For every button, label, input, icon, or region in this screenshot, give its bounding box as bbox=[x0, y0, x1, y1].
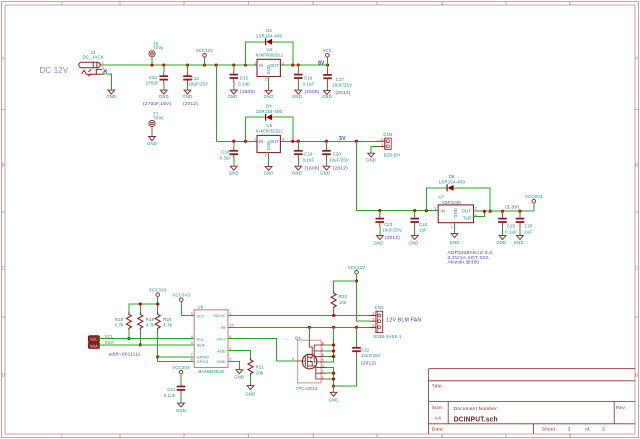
svg-text:4.7k: 4.7k bbox=[146, 322, 155, 327]
IC U6 MAX6650 bbox=[191, 305, 234, 374]
svg-text:GND: GND bbox=[450, 240, 460, 245]
ground (C17) bbox=[324, 91, 331, 95]
svg-text:C16: C16 bbox=[304, 75, 313, 80]
svg-text:NJM7808SDL1: NJM7808SDL1 bbox=[256, 52, 284, 57]
svg-text:GND: GND bbox=[229, 171, 239, 176]
diode D3 bbox=[244, 28, 295, 67]
ground (C23) bbox=[376, 236, 383, 240]
svg-text:10uF/25V: 10uF/25V bbox=[329, 158, 349, 163]
node T6 junction bbox=[150, 63, 153, 66]
svg-text:GND: GND bbox=[227, 94, 237, 99]
wire U7 output rail 3.3V bbox=[474, 210, 534, 212]
svg-text:TPCA8013: TPCA8013 bbox=[296, 386, 319, 391]
wire R21 bottom bbox=[250, 375, 252, 385]
ground (C20) bbox=[323, 166, 330, 170]
resistor R21 bbox=[248, 358, 253, 375]
svg-text:NJM7805SDL1: NJM7805SDL1 bbox=[256, 128, 284, 133]
wire 5V rail bbox=[216, 140, 377, 142]
svg-text:OUT: OUT bbox=[217, 337, 226, 341]
wire TACH0 line bbox=[228, 315, 376, 317]
svg-text:Document Number:: Document Number: bbox=[454, 406, 499, 412]
svg-text:2: 2 bbox=[265, 154, 267, 158]
svg-text:1: 1 bbox=[372, 324, 374, 328]
ground (C25) bbox=[499, 236, 506, 240]
svg-text:GND: GND bbox=[159, 94, 169, 99]
node branch to U7 bbox=[355, 140, 358, 143]
svg-text:(2012): (2012) bbox=[361, 361, 376, 367]
resistor R22 bbox=[331, 292, 336, 309]
svg-text:(3.3V): (3.3V) bbox=[505, 204, 519, 210]
node R18/SCL bbox=[127, 337, 130, 340]
svg-text:GND: GND bbox=[147, 141, 157, 146]
power flag VCC3V3 (pull-ups) bbox=[156, 293, 160, 297]
svg-text:VCC3V3: VCC3V3 bbox=[149, 288, 167, 293]
capacitor C26 bbox=[516, 210, 533, 236]
svg-text:3: 3 bbox=[372, 312, 374, 316]
node drain pin7 bbox=[332, 349, 335, 352]
node VCC / C17 bbox=[326, 63, 329, 66]
wire 12V down to CN5 pin2 bbox=[357, 274, 370, 321]
regulator U7 ADP3338 bbox=[434, 195, 477, 230]
svg-text:4: 4 bbox=[292, 357, 294, 361]
ground (C24) bbox=[411, 236, 418, 240]
diode D4 bbox=[244, 103, 295, 142]
capacitor C19 bbox=[294, 140, 315, 167]
svg-text:ADD: ADD bbox=[217, 349, 226, 353]
svg-text:CN5: CN5 bbox=[375, 305, 384, 310]
svg-text:0.1uF: 0.1uF bbox=[238, 81, 250, 86]
svg-text:VCC: VCC bbox=[197, 314, 206, 318]
svg-text:OUT: OUT bbox=[270, 63, 280, 68]
wire R19 bottom bbox=[139, 330, 141, 345]
node TAB junction bbox=[483, 210, 486, 213]
connector J1 DC_JACK bbox=[79, 50, 107, 76]
wire R20 bottom to GPIO lines bbox=[158, 330, 195, 361]
svg-text:0.1uF: 0.1uF bbox=[164, 393, 176, 398]
wire main 12V rail bbox=[102, 64, 328, 66]
wire Q4 source bus bbox=[326, 368, 333, 387]
ground (CN4) bbox=[368, 153, 375, 157]
node branch to U5 bbox=[215, 63, 218, 66]
svg-text:TAB: TAB bbox=[463, 215, 471, 220]
svg-text:2: 2 bbox=[183, 433, 186, 438]
ground (Q4 source) bbox=[330, 392, 337, 396]
ground (C16) bbox=[295, 90, 302, 94]
svg-text:(1608): (1608) bbox=[305, 165, 320, 171]
svg-text:SDA: SDA bbox=[105, 340, 115, 345]
node FB/drain bus bbox=[332, 326, 335, 329]
wire ground stub bbox=[333, 386, 335, 392]
svg-text:TACH0: TACH0 bbox=[213, 314, 226, 318]
ground (R21) bbox=[247, 386, 254, 390]
svg-text:(270uF,16V): (270uF,16V) bbox=[143, 101, 172, 107]
svg-text:GPIO0: GPIO0 bbox=[197, 356, 209, 360]
svg-text:ADP3338: ADP3338 bbox=[442, 200, 462, 205]
svg-text:C17: C17 bbox=[336, 77, 345, 82]
power flag VCC12V bbox=[196, 48, 214, 66]
svg-text:C13: C13 bbox=[149, 75, 158, 80]
svg-text:3: 3 bbox=[312, 1, 315, 6]
svg-text:10uF/25V: 10uF/25V bbox=[332, 83, 352, 88]
power flag VCC12V (fan) bbox=[355, 270, 359, 274]
svg-text:1: 1 bbox=[61, 433, 64, 438]
node R22/TACH0 bbox=[332, 314, 335, 317]
svg-text:Q4: Q4 bbox=[295, 336, 301, 341]
ground (C19) bbox=[295, 166, 302, 170]
wire U4 pin2 to ground bbox=[268, 77, 270, 91]
svg-text:OUT: OUT bbox=[462, 208, 472, 213]
svg-text:R22: R22 bbox=[339, 294, 348, 299]
svg-text:1uF: 1uF bbox=[524, 229, 532, 234]
svg-text:CN4: CN4 bbox=[383, 132, 392, 137]
ground (U5) bbox=[265, 166, 272, 170]
svg-text:S03B-XASK-1: S03B-XASK-1 bbox=[374, 334, 402, 339]
ground (C14) bbox=[184, 90, 191, 94]
ground (C21) bbox=[178, 403, 185, 407]
svg-text:TPIN: TPIN bbox=[153, 116, 163, 121]
node R20/GPIO0 bbox=[156, 355, 159, 358]
wire FB to Q4 drain top bbox=[308, 327, 310, 340]
wire pull-up top rail bbox=[129, 296, 158, 312]
svg-text:GND: GND bbox=[374, 241, 384, 246]
svg-text:4: 4 bbox=[441, 1, 444, 6]
svg-text:SDA: SDA bbox=[90, 344, 98, 348]
node drain pin6 bbox=[332, 355, 335, 358]
wire OUT to Q4 gate bbox=[228, 339, 298, 361]
svg-text:VCC3V3: VCC3V3 bbox=[172, 365, 190, 370]
wire U6 GND pin to ground bbox=[228, 361, 239, 369]
wire 5V branch down and U7 input rail bbox=[356, 141, 437, 210]
svg-text:2: 2 bbox=[372, 318, 374, 322]
svg-text:GND: GND bbox=[453, 208, 458, 218]
svg-text:U6: U6 bbox=[198, 305, 204, 310]
svg-text:1SR154-400: 1SR154-400 bbox=[256, 109, 283, 114]
capacitor C24 bbox=[410, 209, 427, 236]
wire FB line bbox=[228, 326, 376, 328]
svg-text:C23: C23 bbox=[384, 222, 393, 227]
svg-text:5V: 5V bbox=[339, 136, 346, 142]
svg-text:GND: GND bbox=[366, 158, 376, 163]
svg-text:0.3uF: 0.3uF bbox=[220, 156, 232, 161]
ground (U7) bbox=[451, 234, 458, 238]
svg-text:10k: 10k bbox=[256, 370, 264, 375]
svg-text:GND: GND bbox=[106, 94, 116, 99]
svg-text:8V: 8V bbox=[318, 60, 325, 66]
node R22 branch bbox=[355, 279, 358, 282]
svg-text:8: 8 bbox=[191, 358, 193, 362]
svg-text:A4: A4 bbox=[435, 416, 441, 422]
svg-text:GND: GND bbox=[292, 94, 302, 99]
svg-text:4: 4 bbox=[191, 335, 193, 339]
svg-text:FB: FB bbox=[221, 326, 226, 330]
svg-text:Size:: Size: bbox=[432, 405, 444, 411]
wire SDA bbox=[100, 344, 195, 346]
svg-text:(1608): (1608) bbox=[240, 89, 255, 95]
svg-text:C: C bbox=[2, 266, 6, 271]
svg-text:10k: 10k bbox=[339, 300, 347, 305]
node R19/SDA bbox=[139, 343, 142, 346]
svg-text:10uF/25V: 10uF/25V bbox=[361, 353, 381, 358]
svg-text:7: 7 bbox=[322, 347, 324, 351]
power flag VCC3V3 (U6 VCC) bbox=[180, 298, 184, 302]
svg-text:SDA: SDA bbox=[197, 344, 206, 348]
svg-text:GND: GND bbox=[183, 94, 193, 99]
svg-text:GND: GND bbox=[292, 171, 302, 176]
svg-text:1SR154-400: 1SR154-400 bbox=[439, 180, 466, 185]
svg-text:IN: IN bbox=[259, 139, 264, 144]
svg-text:Date:: Date: bbox=[432, 427, 444, 433]
svg-text:(2012): (2012) bbox=[385, 235, 400, 241]
svg-text:5: 5 bbox=[569, 1, 572, 6]
svg-text:C: C bbox=[635, 266, 639, 271]
svg-text:5: 5 bbox=[322, 358, 324, 362]
svg-text:2: 2 bbox=[183, 1, 186, 6]
global label SCL bbox=[88, 336, 99, 342]
capacitor C15 bbox=[229, 63, 250, 90]
svg-text:B: B bbox=[2, 163, 5, 168]
capacitor C20 bbox=[322, 140, 349, 167]
regulator U4 bbox=[254, 47, 284, 81]
svg-text:4: 4 bbox=[475, 214, 477, 218]
svg-text:GND: GND bbox=[264, 94, 274, 99]
power flag VCC3V3 (3.3V rail) bbox=[533, 203, 535, 211]
title block bbox=[429, 369, 635, 434]
svg-text:1: 1 bbox=[451, 225, 453, 229]
svg-text:GND: GND bbox=[217, 360, 226, 364]
svg-text:8: 8 bbox=[322, 341, 324, 345]
svg-text:OUT: OUT bbox=[270, 139, 280, 144]
wire R22 bottom bbox=[333, 309, 335, 316]
svg-text:GND: GND bbox=[409, 241, 419, 246]
node source/ground rail bbox=[332, 385, 335, 388]
svg-text:GND: GND bbox=[266, 65, 271, 75]
node C22 branch bbox=[355, 326, 358, 329]
regulator U5 bbox=[254, 123, 284, 157]
node FB/drain bbox=[308, 326, 311, 329]
svg-text:(2012): (2012) bbox=[333, 165, 348, 171]
svg-text:4.7k: 4.7k bbox=[115, 322, 124, 327]
svg-text:3: 3 bbox=[191, 341, 193, 345]
svg-text:1: 1 bbox=[254, 61, 256, 65]
test point T6 bbox=[149, 51, 155, 57]
ground (T7) bbox=[149, 137, 156, 141]
connector CN4 bbox=[377, 132, 400, 157]
wire Q4 drain bus bbox=[326, 327, 333, 362]
diode D6 bbox=[425, 174, 492, 213]
svg-text:(2012): (2012) bbox=[183, 101, 198, 107]
svg-text:1: 1 bbox=[61, 1, 64, 6]
svg-text:D: D bbox=[2, 373, 6, 378]
ground (U4) bbox=[265, 90, 272, 94]
wire branch down to 5V regulator rail bbox=[215, 65, 217, 141]
ground (C26) bbox=[517, 236, 524, 240]
capacitor C22 bbox=[334, 327, 381, 386]
svg-text:2: 2 bbox=[381, 138, 383, 142]
svg-text:B2B-EH: B2B-EH bbox=[384, 152, 400, 157]
svg-text:D6: D6 bbox=[449, 174, 455, 179]
svg-text:10uF/25V: 10uF/25V bbox=[382, 228, 402, 233]
svg-text:Title:: Title: bbox=[432, 384, 443, 390]
svg-text:Sheet:: Sheet: bbox=[542, 426, 557, 432]
svg-text:4: 4 bbox=[441, 433, 444, 438]
node R20 top bbox=[156, 302, 159, 305]
power flag VCC bbox=[326, 57, 328, 65]
node drain pin8 bbox=[332, 343, 335, 346]
svg-text:9: 9 bbox=[191, 312, 193, 316]
svg-text:3: 3 bbox=[282, 61, 284, 65]
svg-text:12V BLM FAN: 12V BLM FAN bbox=[386, 318, 421, 324]
svg-text:SCL: SCL bbox=[197, 337, 205, 341]
wire U7 pin1 to ground bbox=[454, 223, 456, 234]
svg-text:C21: C21 bbox=[167, 387, 176, 392]
svg-text:C25: C25 bbox=[507, 224, 516, 229]
svg-text:0.1uF: 0.1uF bbox=[505, 229, 517, 234]
svg-text:VCC3V3: VCC3V3 bbox=[525, 194, 543, 199]
resistor R18 bbox=[126, 313, 131, 330]
svg-text:(1608): (1608) bbox=[305, 89, 320, 95]
svg-text:VCC12V: VCC12V bbox=[348, 265, 366, 270]
resistor R20 bbox=[155, 313, 160, 330]
resistor R19 bbox=[138, 313, 143, 330]
svg-text:VCC12V: VCC12V bbox=[196, 48, 214, 53]
svg-text:5: 5 bbox=[569, 433, 572, 438]
transistor Q4 TPCA8013 bbox=[292, 336, 327, 391]
svg-text:2: 2 bbox=[322, 370, 324, 374]
svg-text:C18: C18 bbox=[221, 150, 230, 155]
ground (C15) bbox=[230, 90, 237, 94]
svg-text:1: 1 bbox=[322, 375, 324, 379]
svg-text:2: 2 bbox=[475, 207, 477, 211]
ground (U6) bbox=[236, 370, 243, 374]
svg-text:MAX6650EUB: MAX6650EUB bbox=[198, 369, 224, 374]
ground (C18) bbox=[230, 166, 237, 170]
capacitor C13 bbox=[146, 63, 168, 90]
svg-text:4.7k: 4.7k bbox=[163, 322, 172, 327]
svg-text:10uF/25V: 10uF/25V bbox=[188, 82, 208, 87]
svg-text:GND: GND bbox=[514, 240, 524, 245]
svg-text:270uF: 270uF bbox=[146, 80, 159, 85]
svg-text:1uF: 1uF bbox=[419, 228, 427, 233]
svg-text:0.1uF: 0.1uF bbox=[303, 81, 315, 86]
node source pin2 bbox=[332, 372, 335, 375]
svg-text:GND: GND bbox=[329, 398, 339, 403]
svg-text:R21: R21 bbox=[256, 364, 265, 369]
wire T7 stub bbox=[151, 127, 153, 137]
ground (C13) bbox=[160, 90, 167, 94]
wire 12V to R22 bbox=[334, 281, 357, 292]
svg-text:C24: C24 bbox=[419, 222, 428, 227]
node R19 top bbox=[139, 302, 142, 305]
wire T6 stub bbox=[151, 57, 153, 65]
svg-text:1: 1 bbox=[254, 137, 256, 141]
capacitor C18 bbox=[220, 140, 238, 167]
svg-text:GND: GND bbox=[266, 141, 271, 151]
svg-text:GND: GND bbox=[320, 171, 330, 176]
capacitor C25 bbox=[498, 210, 517, 236]
svg-text:Akizuki.@300: Akizuki.@300 bbox=[448, 259, 480, 265]
svg-text:0.1uF: 0.1uF bbox=[303, 158, 315, 163]
capacitor C21 bbox=[164, 374, 186, 403]
svg-text:6: 6 bbox=[322, 353, 324, 357]
svg-text:3: 3 bbox=[322, 364, 324, 368]
svg-text:C19: C19 bbox=[304, 152, 313, 157]
test point T7 bbox=[149, 120, 155, 126]
svg-text:1SR154-400: 1SR154-400 bbox=[256, 33, 283, 38]
svg-text:C15: C15 bbox=[240, 75, 249, 80]
svg-text:VCC3V3: VCC3V3 bbox=[173, 293, 191, 298]
svg-text:D: D bbox=[635, 373, 639, 378]
svg-text:GPIO1: GPIO1 bbox=[197, 360, 209, 364]
svg-text:GND: GND bbox=[496, 240, 506, 245]
capacitor C14 bbox=[183, 63, 208, 90]
svg-text:TPIN: TPIN bbox=[153, 46, 163, 51]
svg-text:GND: GND bbox=[234, 374, 244, 379]
connector CN5 bbox=[370, 305, 402, 339]
svg-text:DC_JACK: DC_JACK bbox=[82, 55, 103, 60]
svg-text:SCL: SCL bbox=[90, 338, 97, 342]
node source pin1 bbox=[332, 377, 335, 380]
wire SCL bbox=[100, 338, 195, 340]
svg-text:C14: C14 bbox=[191, 76, 200, 81]
ground (J1) bbox=[108, 90, 115, 94]
svg-text:7: 7 bbox=[191, 353, 193, 357]
svg-text:C22: C22 bbox=[361, 347, 370, 352]
svg-text:3: 3 bbox=[312, 433, 315, 438]
svg-text:(2012): (2012) bbox=[336, 90, 351, 96]
power flag VCC3V3 (C21) bbox=[179, 370, 183, 374]
global label SDA bbox=[88, 342, 99, 348]
svg-text:Rev:: Rev: bbox=[616, 405, 627, 411]
svg-text:GND: GND bbox=[246, 391, 256, 396]
svg-text:1: 1 bbox=[381, 143, 383, 147]
svg-text:2: 2 bbox=[265, 77, 267, 81]
wire U7 TAB to output bbox=[474, 211, 485, 216]
svg-text:SCL: SCL bbox=[105, 334, 114, 339]
capacitor C17 bbox=[323, 65, 352, 91]
svg-text:1: 1 bbox=[102, 61, 104, 65]
svg-text:C26: C26 bbox=[524, 224, 533, 229]
wire GPIO0 bbox=[158, 356, 195, 358]
svg-text:IN: IN bbox=[259, 63, 264, 68]
svg-text:of: of bbox=[585, 426, 590, 432]
wire CN4 pin1 to ground bbox=[371, 147, 377, 154]
svg-text:GND: GND bbox=[264, 171, 274, 176]
svg-text:3: 3 bbox=[282, 137, 284, 141]
svg-text:DC 12V: DC 12V bbox=[40, 66, 69, 75]
svg-text:addr=0011111: addr=0011111 bbox=[109, 351, 141, 357]
svg-text:GND: GND bbox=[322, 94, 332, 99]
svg-text:3: 3 bbox=[434, 207, 436, 211]
wire ADD to R21 bbox=[228, 351, 251, 359]
svg-text:3: 3 bbox=[602, 426, 605, 432]
svg-text:DCINPUT.sch: DCINPUT.sch bbox=[454, 414, 498, 423]
svg-text:VCC: VCC bbox=[323, 48, 332, 53]
svg-text:IN: IN bbox=[441, 209, 446, 214]
wire VCC3V3 to U6 pin 9 bbox=[181, 302, 194, 316]
capacitor C23 bbox=[376, 209, 402, 236]
capacitor C16 bbox=[294, 63, 315, 90]
svg-text:D4: D4 bbox=[266, 103, 272, 108]
wire R18 bottom bbox=[128, 330, 130, 339]
svg-text:D3: D3 bbox=[266, 28, 272, 33]
svg-text:B: B bbox=[635, 163, 638, 168]
svg-text:GND: GND bbox=[176, 408, 186, 413]
svg-text:C20: C20 bbox=[333, 152, 342, 157]
wire J1 pin2 to ground bbox=[103, 74, 111, 90]
wire U5 pin2 to ground bbox=[268, 153, 270, 167]
svg-text:3: 3 bbox=[568, 426, 571, 432]
